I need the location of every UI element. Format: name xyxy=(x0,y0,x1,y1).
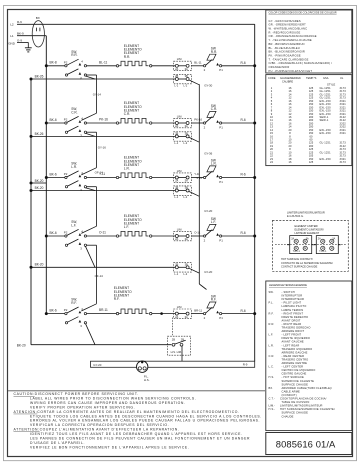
svg-text:LES PANNES DE CONNECTION DE FI: LES PANNES DE CONNECTION DE FILS PEUVENT… xyxy=(30,437,250,441)
wire limiter to SW row 3 xyxy=(191,172,204,177)
svg-text:L.R.: L.R. xyxy=(71,165,77,169)
svg-text:FRENTE IZQUIERDO: FRENTE IZQUIERDO xyxy=(282,336,311,340)
svg-text:H.S. LIM.: H.S. LIM. xyxy=(171,350,182,354)
wire gauge table content xyxy=(268,76,346,164)
svg-text:LEGEND/LEYENDA/LEGENDE: LEGEND/LEYENDA/LEGENDE xyxy=(269,283,307,287)
svg-text:L.F.: L.F. xyxy=(211,220,216,224)
svg-text:R-9: R-9 xyxy=(17,20,22,24)
svg-text:BR-11: BR-11 xyxy=(194,308,202,312)
svg-text:- RIGHT FRONT: - RIGHT FRONT xyxy=(282,311,304,315)
svg-text:R.F.: R.F. xyxy=(211,298,217,302)
svg-text:H.S.: H.S. xyxy=(269,375,275,379)
svg-text:GY-20: GY-20 xyxy=(204,270,212,274)
wire BK-6 row 3 xyxy=(46,172,65,177)
color code table box xyxy=(266,10,352,73)
wire pole2 drop row 5 xyxy=(85,323,95,344)
svg-text:- REAR CENTER: - REAR CENTER xyxy=(282,354,305,358)
wire OF-14 inter-row vertical 3 xyxy=(81,170,103,233)
svg-text:R.R.: R.R. xyxy=(71,53,77,57)
wire bus BK x=46 xyxy=(45,36,47,314)
limiter LIM return row 2 xyxy=(174,131,192,145)
svg-text:3321: 3321 xyxy=(340,131,347,135)
svg-text:BL-11: BL-11 xyxy=(194,61,202,65)
svg-text:L.F.: L.F. xyxy=(124,225,129,229)
svg-text:3B: 3B xyxy=(185,131,188,135)
svg-text:OR. -ORANGE/NARANJA/ORANGE: OR. -ORANGE/NARANJA/ORANGE xyxy=(269,34,317,38)
svg-text:P1: P1 xyxy=(219,125,223,129)
svg-text:2A: 2A xyxy=(291,237,294,240)
wire pole2 drop row 4 xyxy=(85,246,95,267)
svg-text:L.F.: L.F. xyxy=(71,223,76,227)
node junction BK bus return row 2 xyxy=(30,135,33,138)
svg-text:L-1: L-1 xyxy=(174,272,178,276)
svg-text:R.R.: R.R. xyxy=(124,55,131,59)
switch SW R.F. P2 (double pole) xyxy=(64,298,87,329)
svg-text:R.R.: R.R. xyxy=(269,322,275,326)
svg-text:ARRIERE GAUCHE: ARRIERE GAUCHE xyxy=(282,350,308,354)
svg-text:3B: 3B xyxy=(185,262,188,266)
svg-text:O-11: O-11 xyxy=(194,231,200,235)
svg-text:L.R.: L.R. xyxy=(269,343,275,347)
svg-text:LAMPARA PILOTO: LAMPARA PILOTO xyxy=(282,304,307,308)
svg-text:125: 125 xyxy=(309,160,314,164)
svg-text:C.T.-: C.T.- xyxy=(269,397,275,401)
wire R-6 row 2 xyxy=(222,118,255,123)
svg-text:2B: 2B xyxy=(172,338,175,342)
wire GY drop row 3 xyxy=(189,192,199,197)
svg-text:3A: 3A xyxy=(185,237,188,241)
svg-text:P2: P2 xyxy=(64,172,68,176)
svg-text:INTERRUPTOR: INTERRUPTOR xyxy=(282,294,303,298)
wire pole2 drop row 2 xyxy=(85,133,95,136)
svg-text:- RIGHT REAR: - RIGHT REAR xyxy=(282,322,302,326)
svg-text:GSA: GSA xyxy=(323,76,329,80)
svg-text:INTERRUPTEUR: INTERRUPTEUR xyxy=(282,297,305,301)
svg-text:Y. -YELLOW/AMARILLO/JAUNE: Y. -YELLOW/AMARILLO/JAUNE xyxy=(269,38,312,42)
svg-text:2A: 2A xyxy=(175,315,178,319)
element L.R. label xyxy=(124,156,142,171)
svg-text:- SWITCH: - SWITCH xyxy=(282,290,295,294)
svg-text:2B: 2B xyxy=(175,131,178,135)
svg-text:- PILOT LIGHT: - PILOT LIGHT xyxy=(282,301,302,305)
heating element L.R. xyxy=(116,173,152,179)
svg-text:T.A.L.1: T.A.L.1 xyxy=(293,250,301,253)
svg-text:3A: 3A xyxy=(185,67,188,71)
svg-text:LIM: LIM xyxy=(177,57,182,61)
svg-text:BK-20: BK-20 xyxy=(35,263,44,267)
svg-text:P1: P1 xyxy=(219,238,223,242)
node L2 xyxy=(10,20,22,26)
svg-text:BK-9: BK-9 xyxy=(17,32,24,36)
svg-text:L.R.: L.R. xyxy=(211,162,217,166)
node junction BK bus return row 4 xyxy=(30,266,33,269)
svg-text:ETIQUETE TODOS LOS CABLES ANTE: ETIQUETE TODOS LOS CABLES ANTES DE DESCO… xyxy=(30,414,262,418)
svg-text:TABLE DE CUISSON: TABLE DE CUISSON xyxy=(282,400,310,404)
svg-text:PU. -PURPLE/VIOLETA/VIOLET: PU. -PURPLE/VIOLETA/VIOLET xyxy=(269,69,313,73)
svg-text:- LEFT CENTER: - LEFT CENTER xyxy=(282,365,304,369)
svg-text:BK-20: BK-20 xyxy=(35,186,44,190)
svg-text:H.S.-: H.S.- xyxy=(269,407,276,411)
switch SW R.F. (infinite switch) xyxy=(203,294,223,320)
svg-text:BK-26: BK-26 xyxy=(35,132,44,136)
svg-text:2A: 2A xyxy=(175,124,178,128)
svg-text:CENTRO DE IZQUIERDO: CENTRO DE IZQUIERDO xyxy=(282,368,316,372)
wire O-11 row 4 xyxy=(87,231,118,236)
node junction BK bus return row 1 xyxy=(30,78,33,81)
wire pole2 drop row 3 xyxy=(85,188,95,191)
limiter H.S. LIM xyxy=(168,336,191,355)
wire BK-6 row 2 xyxy=(46,118,65,123)
svg-text:GY-16: GY-16 xyxy=(98,146,106,150)
svg-text:2B: 2B xyxy=(175,186,178,190)
wire BK-6 row 4 xyxy=(46,231,65,236)
wire R-6 row 4 xyxy=(222,231,255,236)
wire element to limiter row 1 xyxy=(152,65,175,67)
svg-text:LABEL ALL WIRES PRIOR TO DISCO: LABEL ALL WIRES PRIOR TO DISCONNECTION W… xyxy=(30,396,196,400)
wire R-6 row 5 xyxy=(222,309,255,314)
armored cable BX xyxy=(32,16,44,47)
heating element L.F. xyxy=(116,231,152,237)
wire bus BK x=31 xyxy=(30,79,32,345)
svg-text:T. -TAN/CAFE CLARO/BEIGE: T. -TAN/CAFE CLARO/BEIGE xyxy=(269,57,309,61)
wire GY drop row 4 xyxy=(189,268,199,273)
wire limiter to SW row 5 xyxy=(191,308,204,313)
caution text block xyxy=(14,392,262,449)
node junction BK bus row 2 xyxy=(45,122,48,125)
svg-text:L1: L1 xyxy=(10,34,14,38)
svg-text:3173: 3173 xyxy=(340,160,347,164)
svg-text:8085616 01/A: 8085616 01/A xyxy=(276,438,336,449)
svg-text:GY. -GRAY/GRIS/GRES: GY. -GRAY/GRIS/GRES xyxy=(269,19,301,23)
svg-text:ARMORED CABLE(TUBO FLEXIBLE)/: ARMORED CABLE(TUBO FLEXIBLE)/ xyxy=(282,386,333,390)
element R.F. label xyxy=(114,286,132,301)
svg-text:SUPERFICIE CALIENTE: SUPERFICIE CALIENTE xyxy=(282,379,315,383)
svg-text:O/BK. -ORANGE/BLACK( NARANJA/N: O/BK. -ORANGE/BLACK( NARANJA/NEGRO) / xyxy=(269,61,333,65)
switch SW C.R. P2 (double pole) xyxy=(64,107,87,138)
wire GY drop row 2 xyxy=(189,137,199,142)
pilot light P.L. H.S. xyxy=(137,361,150,382)
wire BK-20 return row 4 xyxy=(31,263,176,268)
wire R-9 L2 rail xyxy=(17,23,255,25)
svg-text:CAUTION:DISCONNECT POWER BEFOR: CAUTION:DISCONNECT POWER BEFORE SERVICIN… xyxy=(14,392,139,396)
svg-text:ELEMENTO LIMITADOR/: ELEMENTO LIMITADOR/ xyxy=(295,228,324,232)
svg-text:L.C.: L.C. xyxy=(269,365,275,369)
svg-text:BX: BX xyxy=(36,16,40,20)
svg-text:TRASERO IZQUIERDO: TRASERO IZQUIERDO xyxy=(282,347,313,351)
wire pole2 drop row 1 xyxy=(85,76,95,79)
svg-text:ATTENTION:COUPEZ L'ALIMENTATIO: ATTENTION:COUPEZ L'ALIMENTATION AVANT D'… xyxy=(14,428,180,432)
svg-text:R-6: R-6 xyxy=(241,61,246,65)
wire R-6 row 3 xyxy=(222,173,255,178)
svg-text:L-2: L-2 xyxy=(183,84,187,88)
svg-text:STYLE: STYLE xyxy=(327,83,335,87)
legend box xyxy=(266,281,352,431)
limiter terminal block 1 xyxy=(287,236,314,254)
limiter LIM row 4 (series) xyxy=(174,227,192,241)
svg-text:ARRIERE DROIT: ARRIERE DROIT xyxy=(282,329,305,333)
wire bus R-6 right x=254.7 xyxy=(254,24,256,361)
limiter LIM row 2 (series) xyxy=(174,114,192,128)
wire OF-14 inter-row vertical 4 xyxy=(81,245,103,311)
svg-text:R-6: R-6 xyxy=(241,231,246,235)
svg-text:BR-11: BR-11 xyxy=(99,308,108,312)
svg-text:W. -WHITE/BLANCO/BLANC: W. -WHITE/BLANCO/BLANC xyxy=(269,27,308,31)
svg-text:CONTACTO DE LA SUPERFICIE SALI: CONTACTO DE LA SUPERFICIE SALIENTE/ xyxy=(281,261,333,265)
svg-text:UL: UL xyxy=(340,76,344,80)
svg-text:HOT SURFACE/SUPERFICIE CALIENT: HOT SURFACE/SUPERFICIE CALIENTE/ xyxy=(280,407,335,411)
svg-text:BK-20: BK-20 xyxy=(17,343,26,347)
svg-text:CODE: CODE xyxy=(268,76,276,80)
svg-text:P1: P1 xyxy=(219,68,223,72)
svg-text:R-6: R-6 xyxy=(241,118,246,122)
svg-text:TRASERO DERECHO: TRASERO DERECHO xyxy=(282,326,311,330)
svg-text:GL-1251: GL-1251 xyxy=(320,150,332,154)
svg-text:L-1: L-1 xyxy=(174,195,178,199)
svg-text:GY-20: GY-20 xyxy=(93,363,101,367)
svg-text:3A: 3A xyxy=(185,124,188,128)
svg-text:5 11: 5 11 xyxy=(197,176,203,180)
svg-text:GL-1251: GL-1251 xyxy=(320,141,332,145)
element C.R. label xyxy=(124,101,142,116)
svg-text:BK-8: BK-8 xyxy=(50,61,57,65)
svg-text:L.R.: L.R. xyxy=(124,167,130,171)
color code table content xyxy=(269,12,337,73)
svg-text:2A: 2A xyxy=(318,237,321,240)
svg-text:WIRING ERRORS CAN CAUSE IMPROP: WIRING ERRORS CAN CAUSE IMPROPER AND DAN… xyxy=(30,401,185,405)
wire element to limiter row 4 xyxy=(152,235,175,237)
svg-text:R-6: R-6 xyxy=(241,173,246,177)
svg-text:OF-14: OF-14 xyxy=(95,170,104,174)
wire BR-11 row 5 xyxy=(87,308,118,313)
limiter LIM return row 1 xyxy=(174,74,192,88)
svg-text:PK-16: PK-16 xyxy=(99,118,108,122)
svg-text:2A: 2A xyxy=(175,179,178,183)
svg-text:L.F.: L.F. xyxy=(269,333,274,337)
svg-text:R.R.: R.R. xyxy=(211,50,217,54)
element limiter title xyxy=(295,224,324,235)
svg-text:SW.: SW. xyxy=(269,290,274,294)
svg-text:BK-20: BK-20 xyxy=(35,179,44,183)
svg-text:GY-30: GY-30 xyxy=(204,84,212,88)
svg-text:L2: L2 xyxy=(10,23,14,27)
node junction BK bus return row 3 xyxy=(30,189,33,192)
svg-text:C.R.: C.R. xyxy=(211,107,217,111)
svg-text:CHAUDE: CHAUDE xyxy=(282,414,294,418)
svg-text:GY-20: GY-20 xyxy=(204,209,212,213)
svg-text:LAMPE TEMOIN: LAMPE TEMOIN xyxy=(282,308,304,312)
svg-text:O-11: O-11 xyxy=(99,231,106,235)
wire bus GY x=199.3 xyxy=(199,84,206,289)
svg-text:P2: P2 xyxy=(64,118,68,122)
svg-text:ARRIERE CENTRE: ARRIERE CENTRE xyxy=(282,361,308,365)
bus bar (pilot circuit) xyxy=(91,361,255,367)
legend content xyxy=(269,283,335,418)
wire limiter to SW row 1 xyxy=(191,61,204,66)
svg-text:HOT SURFACE CONTACT/: HOT SURFACE CONTACT/ xyxy=(281,257,313,261)
svg-text:BK-26: BK-26 xyxy=(35,74,44,78)
svg-text:- HOT SURFACE: - HOT SURFACE xyxy=(282,375,305,379)
svg-text:ELEMENT LIMITER/: ELEMENT LIMITER/ xyxy=(295,224,319,228)
svg-text:VERIFICAR LA CORRECTA OPERACIO: VERIFICAR LA CORRECTA OPERACION DESPUES … xyxy=(30,423,169,427)
svg-text:BK-6: BK-6 xyxy=(50,231,57,235)
svg-text:T.A.L.1: T.A.L.1 xyxy=(319,250,327,253)
wire limiter to SW row 4 xyxy=(191,231,204,236)
wire BK-20 return row 3 xyxy=(31,186,176,191)
svg-text:P1: P1 xyxy=(219,180,223,184)
svg-text:L-2: L-2 xyxy=(183,272,187,276)
svg-text:VERIFY PROPER OPERATION AFTER: VERIFY PROPER OPERATION AFTER SERVICING. xyxy=(30,405,135,409)
svg-text:2B: 2B xyxy=(175,74,178,78)
node junction R-6 bus row 1 xyxy=(253,64,256,67)
svg-text:LIM: LIM xyxy=(177,114,182,118)
limiter LIM row 3 (series) xyxy=(174,169,192,183)
wire R-6 row 1 xyxy=(222,61,255,66)
svg-text:ORANGE/NOIR: ORANGE/NOIR xyxy=(269,65,290,69)
node junction R-6 bus row 2 xyxy=(253,122,256,125)
svg-text:BK. -BLACK/NEGRO/NOIR: BK. -BLACK/NEGRO/NOIR xyxy=(269,50,306,54)
node junction R-6 bus row 4 xyxy=(253,235,256,238)
svg-text:LIM: LIM xyxy=(177,305,182,309)
svg-text:CABLE ARME: CABLE ARME xyxy=(282,389,301,393)
element R.R. label xyxy=(124,44,142,59)
limiter LIM return row 4 xyxy=(174,262,192,276)
node junction BK bus row 5 xyxy=(45,312,48,315)
svg-text:GND: GND xyxy=(8,42,16,46)
svg-text:BK-6: BK-6 xyxy=(50,308,57,312)
svg-text:AVANT DROIT: AVANT DROIT xyxy=(282,318,301,322)
wire Y-11 row 3 xyxy=(87,172,118,177)
ground symbol xyxy=(25,48,32,52)
wire BK-8 row 1 xyxy=(46,61,65,66)
svg-text:D'USAGE DE L'APPAREIL.: D'USAGE DE L'APPAREIL. xyxy=(30,441,85,445)
svg-text:GY-36: GY-36 xyxy=(204,152,212,156)
svg-text:IDENTIFIEZ TOUS LES FILS AVANT: IDENTIFIEZ TOUS LES FILS AVANT DE LES DE… xyxy=(30,432,243,436)
node junction BK bus row 3 xyxy=(45,176,48,179)
hot surface contact caption xyxy=(281,257,333,268)
svg-text:3A: 3A xyxy=(185,179,188,183)
limiter LIM row 5 (series) xyxy=(174,305,192,319)
svg-text:L-2: L-2 xyxy=(183,195,187,199)
wire PK-16 row 2 xyxy=(87,118,118,123)
svg-text:COLOR CODE/CODIGOS DE COLOR/CO: COLOR CODE/CODIGOS DE COLOR/CODE DE COUL… xyxy=(269,12,337,15)
svg-text:R.F.: R.F. xyxy=(71,301,77,305)
wire GY drop row 1 xyxy=(189,80,199,85)
switch SW L.R. P2 (double pole) xyxy=(64,162,87,193)
wire gauge table box xyxy=(266,75,352,166)
wire BK-6 row 5 xyxy=(46,308,65,313)
svg-text:R-6: R-6 xyxy=(241,309,246,313)
svg-text:FRENTE DERECHO: FRENTE DERECHO xyxy=(282,315,309,319)
svg-text:P: P xyxy=(80,76,82,80)
svg-text:R-9: R-9 xyxy=(243,362,248,366)
svg-text:OF-14: OF-14 xyxy=(95,274,104,278)
svg-text:E.G.B./W.R.G.: E.G.B./W.R.G. xyxy=(287,214,304,218)
heating element R.R. xyxy=(116,61,152,67)
wire element to limiter row 2 xyxy=(152,122,175,124)
svg-text:PK. -PINK/ROSA/ROSE: PK. -PINK/ROSA/ROSE xyxy=(269,53,301,57)
heating element R.F. xyxy=(116,309,152,315)
svg-text:R.F.: R.F. xyxy=(269,311,274,315)
svg-text:- LEFT FRONT: - LEFT FRONT xyxy=(282,333,302,337)
svg-text:P2: P2 xyxy=(64,60,68,64)
svg-text:3A: 3A xyxy=(185,315,188,319)
svg-text:GAUGE/MEDIDA/: GAUGE/MEDIDA/ xyxy=(280,76,301,80)
svg-text:BK-6: BK-6 xyxy=(50,118,57,122)
svg-text:AVANT GAUCHE: AVANT GAUCHE xyxy=(282,340,304,344)
node L1 xyxy=(10,32,24,38)
svg-text:BR. -BROWN/CAFE/BRUN: BR. -BROWN/CAFE/BRUN xyxy=(269,42,305,46)
svg-text:LIM: LIM xyxy=(177,227,182,231)
svg-text:BL. -BLUE/AZUL/BLEU: BL. -BLUE/AZUL/BLEU xyxy=(269,46,300,50)
svg-text:COOKTOP/PLANCHA DE COCINA/: COOKTOP/PLANCHA DE COCINA/ xyxy=(280,397,327,401)
wire BK-26 return row 2 xyxy=(31,132,176,137)
svg-text:TEMP.°S: TEMP.°S xyxy=(306,76,317,80)
svg-text:L-2: L-2 xyxy=(183,141,187,145)
wire BL-11 row 1 xyxy=(87,60,118,65)
wire element to limiter row 5 xyxy=(152,312,175,315)
svg-text:EXL-150: EXL-150 xyxy=(320,157,332,161)
node junction BK bus row 1 xyxy=(45,64,48,67)
wire limiter to SW row 2 xyxy=(191,118,204,123)
svg-text:LIM: LIM xyxy=(177,169,182,173)
svg-text:BX.: BX. xyxy=(269,386,274,390)
svg-text:C.R.: C.R. xyxy=(71,110,77,114)
svg-text:GR. -GREEN/VERDE/VERT: GR. -GREEN/VERDE/VERT xyxy=(269,23,307,27)
svg-text:ATENCION:CORTAR LA CORRIENTE A: ATENCION:CORTAR LA CORRIENTE ANTES DE RE… xyxy=(14,410,240,414)
svg-text:LIMITER/LIMITADOR/LIMITEUR: LIMITER/LIMITADOR/LIMITEUR xyxy=(280,404,323,408)
wire GY-14 inter-row vertical 1 xyxy=(81,75,101,120)
element L.F. label xyxy=(124,214,142,229)
wire GY-16 inter-row vertical 2 xyxy=(81,132,106,175)
svg-text:- LEFT REAR: - LEFT REAR xyxy=(282,343,300,347)
svg-text:H.S.: H.S. xyxy=(144,378,150,382)
svg-text:(CONDUIT): (CONDUIT) xyxy=(282,393,297,397)
limiter LIM return row 3 xyxy=(174,186,192,200)
svg-text:P1: P1 xyxy=(219,316,223,320)
switch SW R.R. (infinite switch) xyxy=(203,47,223,73)
svg-text:3B: 3B xyxy=(185,186,188,190)
separator rule xyxy=(8,390,265,392)
svg-text:R.F.: R.F. xyxy=(114,297,120,301)
svg-text:P.L.: P.L. xyxy=(269,301,274,305)
switch SW L.F. P2 (double pole) xyxy=(64,220,87,251)
svg-text:C.R.: C.R. xyxy=(269,354,275,358)
switch SW R.R. P2 (double pole) xyxy=(64,50,87,81)
svg-text:CALIBRE: CALIBRE xyxy=(282,80,293,84)
limiter LIM row 1 (series) xyxy=(174,57,192,71)
svg-text:SURFACE CHAUDE: SURFACE CHAUDE xyxy=(282,382,309,386)
wire G-9 xyxy=(17,42,28,47)
wire BK-26 return row 1 xyxy=(31,74,176,79)
svg-text:L-1: L-1 xyxy=(174,84,178,88)
svg-text:P2: P2 xyxy=(64,231,68,235)
svg-text:L-1: L-1 xyxy=(174,141,178,145)
svg-text:P2: P2 xyxy=(64,308,68,312)
limiter terminal block 2 xyxy=(314,236,341,254)
svg-text:2A: 2A xyxy=(175,237,178,241)
node junction R-6 bus row 5 xyxy=(253,312,256,315)
wire limiter chain dashed xyxy=(172,318,174,337)
svg-text:SEW-1: SEW-1 xyxy=(320,118,329,122)
svg-text:G-9: G-9 xyxy=(17,38,22,42)
svg-text:3B: 3B xyxy=(185,74,188,78)
wire BK-9 L1 xyxy=(17,35,46,37)
wire element to limiter row 3 xyxy=(152,177,175,179)
svg-text:LIM.-: LIM.- xyxy=(269,404,276,408)
svg-text:2A: 2A xyxy=(175,67,178,71)
svg-text:VERIFIEZ LE BON FONCTIONNEMENT: VERIFIEZ LE BON FONCTIONNEMENT DE L'APPA… xyxy=(30,445,189,449)
svg-text:LIMITEUR ELEMENT: LIMITEUR ELEMENT xyxy=(295,231,320,235)
